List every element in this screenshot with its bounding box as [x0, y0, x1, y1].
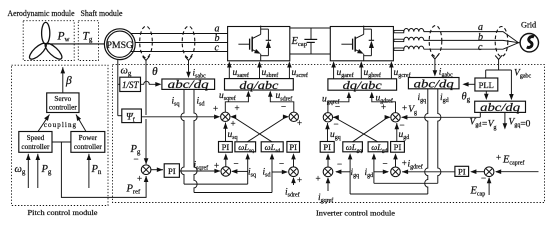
DC link top rail — [290, 27, 331, 29]
DC link capacitor C1 — [310, 28, 312, 39]
svg-text:+: + — [297, 118, 302, 128]
wire isd feedback — [194, 192, 272, 194]
shaft wire turbine to PMSG — [46, 43, 105, 45]
wire isdref input — [293, 178, 295, 185]
PI regulator speed — [164, 164, 179, 178]
svg-text:coupling: coupling — [44, 121, 77, 129]
PI regulator isd — [287, 142, 300, 153]
wire isabc from ellipse2 — [188, 61, 190, 73]
svg-text:−: − — [233, 159, 238, 169]
wire PLL theta-g down — [485, 91, 487, 95]
measurement ellipse 4 (Vgabc tap) — [495, 27, 508, 57]
machine-side converter box — [228, 27, 290, 61]
grid-side converter box — [330, 27, 393, 61]
svg-text:Grid: Grid — [521, 21, 537, 30]
shaft module dashed box — [78, 21, 98, 61]
svg-text:+: + — [496, 153, 501, 163]
beta arrow servo output — [62, 67, 64, 93]
wire isd vertical — [194, 89, 197, 192]
tap Y ellipse 1 — [143, 56, 150, 60]
svg-text:PI: PI — [458, 166, 466, 176]
measurement ellipse 3 (igabc tap) — [429, 26, 442, 57]
dq/abc block grid — [328, 79, 397, 90]
svg-text:+: + — [230, 119, 235, 129]
wire speed-power connector — [52, 141, 71, 143]
svg-text:+: + — [381, 102, 386, 112]
svg-text:Speed: Speed — [27, 134, 45, 142]
gain block omega-Lgd — [368, 142, 388, 152]
cross wire omegaLsq to usd sum — [247, 117, 287, 142]
svg-text:PI: PI — [394, 142, 402, 152]
svg-text:abc/dq: abc/dq — [480, 100, 520, 114]
wire Pg measurement — [145, 61, 147, 116]
wire theta to abc/dq — [141, 81, 159, 84]
svg-text:c: c — [478, 42, 483, 53]
wire igdref — [402, 171, 455, 173]
measurement ellipse 2 (isabc tap) — [182, 26, 195, 58]
gain block omega-Lgq — [343, 142, 363, 152]
wire phase b (grid) — [424, 40, 519, 42]
svg-text:PI: PI — [289, 142, 297, 152]
wire igqref input — [327, 178, 329, 191]
svg-text:PMSG: PMSG — [106, 40, 133, 51]
gain block omega-Lsq — [235, 142, 256, 152]
wire igq feedback — [350, 193, 428, 195]
dq/abc block machine — [225, 79, 294, 90]
svg-text:controller: controller — [49, 104, 78, 112]
svg-text:−: − — [335, 102, 340, 112]
wire Pg input pitch — [37, 154, 39, 188]
tap Y ellipse 2 — [185, 56, 192, 60]
DC link bottom rail — [290, 53, 331, 55]
wire PLL to abc/dq — [464, 83, 475, 85]
svg-text:Power: Power — [79, 134, 98, 142]
svg-text:−: − — [281, 102, 286, 112]
wire phase b (machine) — [135, 42, 227, 44]
wire usq — [225, 123, 227, 142]
svg-text:dq/abc: dq/abc — [343, 78, 383, 92]
summing junction igq — [323, 167, 333, 177]
svg-text:Aerodynamic module: Aerodynamic module — [8, 9, 75, 18]
svg-text:−: − — [133, 154, 138, 164]
cross wire omegaLgd to ugq sum — [333, 117, 377, 142]
cross wire omegaLgq to ugd sum — [353, 117, 390, 142]
power controller box — [71, 132, 105, 153]
svg-text:+: + — [214, 161, 219, 171]
wire igd feedback — [374, 182, 438, 184]
svg-text:Servo: Servo — [54, 95, 71, 103]
coupling wire power to servo — [76, 115, 86, 132]
summing junction ugq — [323, 113, 332, 122]
svg-text:PI: PI — [323, 142, 331, 152]
summing junction Ecap — [484, 167, 494, 177]
wire isq err to PI — [225, 155, 227, 167]
speed controller box — [19, 132, 52, 153]
filter inductor La — [394, 30, 404, 32]
wire igq to sum — [336, 171, 350, 173]
wire grid node to source — [519, 42, 521, 44]
summing junction isq — [221, 167, 231, 177]
svg-text:PI: PI — [168, 166, 176, 176]
gain block omega-Lsd — [261, 142, 283, 152]
wire ugqref — [328, 93, 349, 113]
svg-text:−: − — [382, 159, 387, 169]
grid source G — [520, 34, 538, 52]
cross wire omegaLsd to usq sum — [232, 117, 272, 142]
wire igq err to PI — [327, 155, 329, 167]
aerodynamic module dashed box — [23, 21, 74, 61]
svg-text:PI: PI — [222, 142, 230, 152]
measurement ellipse 1 (Pg tap) — [140, 26, 153, 58]
pitch control module dashed border — [12, 65, 109, 205]
summing junction usq — [221, 112, 230, 121]
wire isqref — [179, 170, 219, 172]
wire Vgq zero — [504, 112, 506, 125]
wire ugdref — [372, 93, 396, 113]
wire Pn input — [88, 154, 90, 188]
wire igabc from ellipse3 — [434, 59, 436, 71]
wire Ecapref input — [496, 171, 539, 173]
wire Psi-f feedforward — [141, 116, 217, 118]
svg-text:+: + — [315, 174, 320, 184]
svg-text:controller: controller — [74, 143, 103, 151]
svg-text:+: + — [137, 174, 142, 184]
wire igd err to PI — [395, 155, 397, 167]
svg-text:β: β — [65, 75, 72, 87]
wire ugcref — [390, 68, 392, 79]
PI regulator dc link — [455, 166, 469, 176]
wire isd err to PI — [293, 155, 295, 167]
wire isq to sum — [232, 170, 248, 172]
PLL block — [475, 78, 498, 91]
wire phase c (grid) — [424, 43, 519, 50]
PI regulator igd — [391, 142, 405, 153]
svg-text:+: + — [234, 103, 239, 113]
wire isd to sum — [272, 171, 287, 173]
wire Pref from pitch module — [61, 142, 146, 197]
wire ugbref — [360, 68, 362, 79]
wire phase c (machine) — [131, 51, 228, 53]
wire uscref — [288, 68, 290, 79]
svg-text:+: + — [297, 175, 302, 185]
wire ugq — [327, 123, 329, 142]
svg-text:+: + — [402, 158, 407, 168]
PI regulator igq — [320, 142, 334, 153]
coupling wire speed to servo — [38, 115, 50, 132]
summing junction isd — [289, 167, 299, 177]
tap Y ellipse 4 — [495, 55, 502, 59]
wire usaref — [228, 68, 230, 79]
wire isq feedback — [184, 183, 248, 185]
generator PMSG — [104, 29, 135, 60]
IGBT valve machine converter — [238, 43, 249, 45]
wire phase a (machine) — [131, 33, 228, 35]
svg-text:−: − — [337, 159, 342, 169]
wire omega-g input — [27, 154, 29, 188]
wind turbine W1 — [27, 22, 64, 61]
abc/dq block grid currents — [408, 78, 459, 89]
svg-text:−: − — [481, 173, 486, 183]
svg-text:Pitch control module: Pitch control module — [28, 208, 99, 217]
wire ugaref — [333, 68, 335, 79]
summing junction power — [141, 165, 151, 175]
IGBT valve grid converter — [341, 43, 352, 45]
flux block Psi-f — [122, 109, 142, 123]
filter inductor Lc — [394, 48, 404, 50]
wire usqref — [225, 92, 248, 112]
svg-text:−: − — [333, 119, 338, 129]
PI regulator isq — [219, 142, 233, 153]
svg-text:−: − — [279, 159, 284, 169]
wire isq vertical — [181, 89, 184, 184]
svg-text:−: − — [399, 120, 404, 130]
svg-text:PLL: PLL — [479, 80, 494, 90]
wire usdref — [270, 92, 294, 112]
wire Ecap sum to PI — [472, 171, 485, 173]
integrator block 1/ST — [120, 77, 141, 91]
svg-text:1/ST: 1/ST — [122, 80, 140, 90]
wire igd vertical — [438, 89, 441, 184]
wire ugd — [396, 123, 398, 142]
svg-text:Inverter control module: Inverter control module — [316, 209, 396, 218]
svg-text:Shaft module: Shaft module — [81, 9, 123, 18]
abc/dq block grid voltages — [475, 101, 526, 112]
svg-text:+: + — [213, 104, 218, 114]
wire igd to sum — [374, 171, 388, 173]
svg-text:θ: θ — [152, 66, 158, 78]
summing junction ugd — [391, 113, 400, 122]
wire igq vertical — [425, 89, 428, 194]
summing junction usd — [289, 112, 298, 121]
abc/dq block machine — [162, 79, 215, 89]
svg-text:+: + — [402, 103, 407, 113]
svg-text:dq/abc: dq/abc — [239, 78, 279, 92]
wire Ecap input — [488, 178, 490, 195]
servo controller box — [47, 93, 79, 113]
wire power sum to PI — [151, 169, 163, 171]
filter inductor Lb — [394, 39, 404, 41]
wire Vgabc tap to PLL and abcdq2 — [498, 60, 500, 71]
svg-text:controller: controller — [21, 143, 50, 151]
wire omega-g from PMSG — [117, 60, 119, 116]
tap Y ellipse 3 — [432, 55, 439, 59]
summing junction igd — [391, 167, 401, 177]
wire phase a (grid) — [424, 32, 519, 43]
wire Vg feedforward — [402, 116, 481, 118]
svg-text:c: c — [215, 43, 220, 54]
wire usbref — [259, 68, 261, 79]
inverter control module dashed border — [113, 65, 545, 203]
